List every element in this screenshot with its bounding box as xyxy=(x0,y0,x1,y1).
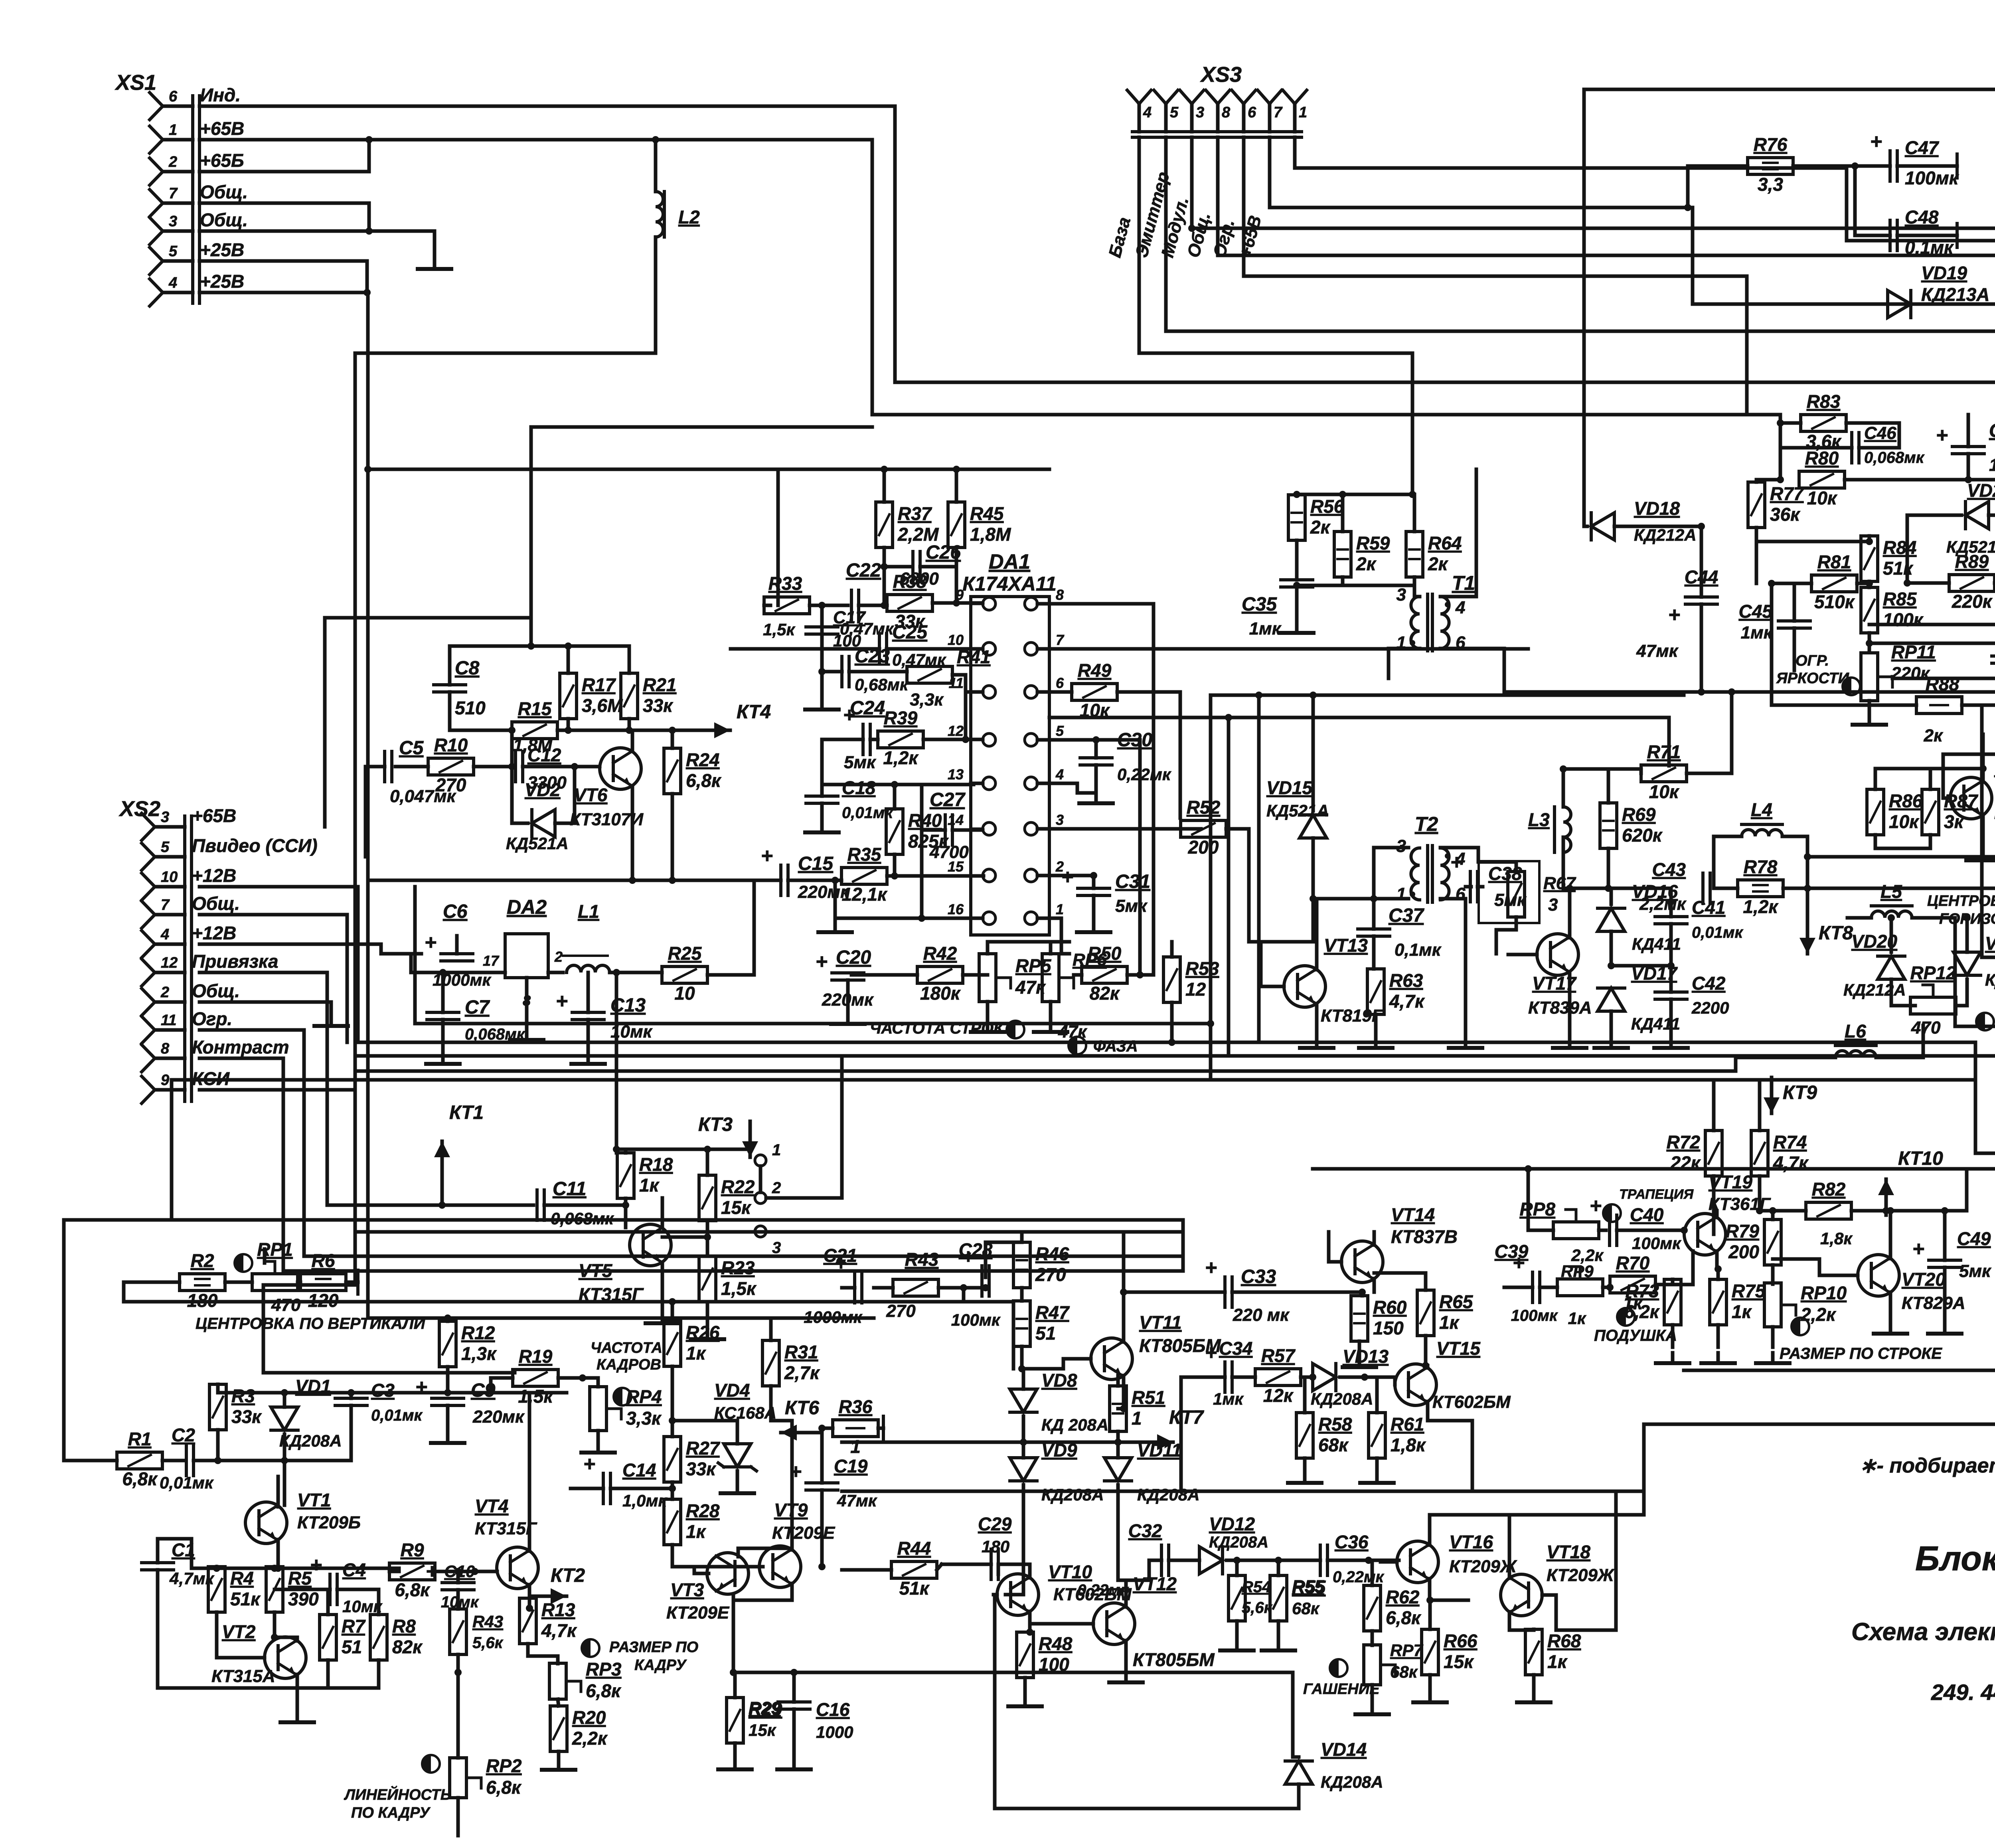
wire RP2 bottom xyxy=(456,1798,460,1836)
svg-text:ЦЕНТРОВКА ПО ВЕРТИКАЛИ: ЦЕНТРОВКА ПО ВЕРТИКАЛИ xyxy=(196,1315,426,1332)
transistor VT18 xyxy=(1501,1542,1590,1616)
label линейность по кадру xyxy=(344,1785,451,1821)
junction xyxy=(818,668,826,675)
capacitor C35 xyxy=(1281,580,1313,587)
diode VD11 xyxy=(1104,1440,1182,1481)
svg-text:ЦЕНТРОВКА ПО: ЦЕНТРОВКА ПО xyxy=(1927,893,1995,909)
svg-text:0,22мк: 0,22мк xyxy=(1333,1568,1384,1586)
connector XS1 pin 3 Общ. xyxy=(150,210,248,245)
wire left riser xyxy=(170,1080,174,1220)
svg-text:2к: 2к xyxy=(1924,726,1944,745)
wire Iстр12 row xyxy=(1807,887,1995,890)
wire R57 to VD13 xyxy=(1301,1376,1313,1379)
resistor R24 xyxy=(664,748,722,794)
junction xyxy=(1728,688,1735,696)
wire R1 to C2 xyxy=(162,1459,184,1463)
svg-text:14: 14 xyxy=(948,812,964,828)
label VD12 type xyxy=(1209,1534,1268,1551)
svg-text:C32: C32 xyxy=(1128,1520,1162,1541)
wire R75 bottom xyxy=(1716,1325,1720,1347)
svg-text:1к: 1к xyxy=(639,1175,660,1196)
svg-text:Общ.: Общ. xyxy=(192,893,240,914)
wire C39 to RP9 xyxy=(1540,1286,1557,1289)
wire KT13 riser xyxy=(1974,1042,1977,1153)
wire left bus riser xyxy=(356,887,360,1042)
capacitor C37 xyxy=(1358,929,1390,936)
svg-text:R53: R53 xyxy=(1185,958,1219,979)
svg-text:R20: R20 xyxy=(572,1707,606,1728)
wire VT4 emitter xyxy=(528,1585,531,1608)
wire C41 bottom xyxy=(1669,924,1673,966)
svg-text:15к: 15к xyxy=(1444,1651,1474,1672)
svg-text:6,8к: 6,8к xyxy=(586,1680,622,1701)
svg-text:100мк: 100мк xyxy=(1632,1234,1681,1253)
wire R33 left stub xyxy=(764,604,770,607)
ground R29 xyxy=(718,1759,752,1769)
svg-text:390: 390 xyxy=(288,1589,319,1609)
wire R2-RP1 xyxy=(225,1281,252,1284)
wire R67 bottom to VT17 base xyxy=(1496,917,1516,954)
wire C17 node to C22 xyxy=(822,604,848,607)
capacitor C38 xyxy=(1451,851,1477,902)
svg-text:1: 1 xyxy=(772,1141,781,1159)
wire VD15 bottom xyxy=(1313,838,1345,899)
wire VT11 emitter xyxy=(1122,1376,1126,1409)
junction xyxy=(1941,1207,1948,1214)
wire R54 bottom xyxy=(1235,1621,1239,1640)
connector XS2 label xyxy=(119,797,160,821)
label C1 xyxy=(169,1540,214,1588)
svg-text:R9: R9 xyxy=(401,1540,424,1560)
label C38 xyxy=(1488,863,1527,910)
junction xyxy=(1715,1265,1722,1273)
label RP8 xyxy=(1520,1199,1604,1265)
label C32 xyxy=(1077,1520,1162,1599)
wire C23 to R41 xyxy=(849,670,907,674)
svg-text:+: + xyxy=(426,1560,438,1583)
wire C2 to node xyxy=(194,1459,351,1463)
wire R46-R47 xyxy=(1020,1288,1024,1301)
wire long rail y4191 xyxy=(733,1671,1293,1674)
label C10 xyxy=(441,1562,479,1611)
label R82 value xyxy=(1820,1229,1853,1248)
svg-text:5: 5 xyxy=(161,839,170,856)
wire VT16 emitter xyxy=(1430,1579,1468,1600)
svg-text:XS3: XS3 xyxy=(1200,63,1242,87)
wire riser xyxy=(1179,1442,1183,1491)
junction xyxy=(439,1202,446,1209)
wire C39 left xyxy=(1504,1286,1533,1289)
svg-text:R40: R40 xyxy=(908,810,942,831)
svg-text:12: 12 xyxy=(1185,979,1206,1000)
svg-text:51: 51 xyxy=(342,1637,362,1657)
svg-text:VD12: VD12 xyxy=(1209,1514,1255,1534)
svg-text:1: 1 xyxy=(1132,1408,1142,1429)
svg-text:R33: R33 xyxy=(768,573,802,594)
svg-text:1: 1 xyxy=(1299,104,1307,121)
resistor R25 xyxy=(662,943,707,1004)
potentiometer RP6 xyxy=(1042,954,1074,1002)
wire R71 right xyxy=(1687,692,1732,773)
wire Защита8 riser xyxy=(1980,705,1984,957)
svg-text:R43: R43 xyxy=(472,1612,503,1631)
capacitor C19 xyxy=(790,1460,838,1490)
transistor VT15 xyxy=(1395,1338,1481,1405)
svg-text:3: 3 xyxy=(1396,836,1406,856)
connector XS2 pin 4 +12В xyxy=(142,923,236,958)
junction xyxy=(1777,419,1784,427)
ground DA2 xyxy=(510,1030,543,1040)
wire to C6 xyxy=(381,952,421,956)
wire pin1 xyxy=(1037,918,1069,954)
wire R35 to pin15 drawn earlier segment xyxy=(887,874,983,878)
label C45 xyxy=(1739,601,1774,642)
resistor R67 xyxy=(1508,872,1525,917)
resistor R89 xyxy=(1949,551,1995,612)
wire bus C2 to XS6-6 xyxy=(842,995,1995,1056)
ground near XS1 xyxy=(433,257,437,261)
wire to T2 node xyxy=(1345,897,1374,901)
junction xyxy=(527,642,535,650)
wire VT13 collector xyxy=(1315,899,1319,970)
resistor R74 xyxy=(1751,1131,1809,1176)
svg-text:КД208А: КД208А xyxy=(1209,1534,1268,1551)
ground VD4 xyxy=(721,1483,754,1493)
wire Iстр7 row xyxy=(1955,918,1995,1026)
svg-text:C23: C23 xyxy=(855,646,890,667)
label VT12 type xyxy=(1133,1649,1215,1670)
capacitor C49 xyxy=(1913,1237,1961,1267)
ground C9 xyxy=(431,1433,464,1443)
wire C12 to VT6 base xyxy=(523,765,600,769)
wire duplicate xyxy=(820,605,824,656)
potentiometer RP2 xyxy=(450,1755,522,1798)
wire R76 left xyxy=(1688,164,1748,168)
svg-text:VT14: VT14 xyxy=(1391,1204,1435,1225)
resistor R9 xyxy=(389,1540,435,1600)
wire T2 pin3 feed xyxy=(1374,848,1408,899)
svg-text:+: + xyxy=(310,1554,322,1577)
wire VT9 emitter xyxy=(733,1583,792,1600)
wire C3 top xyxy=(350,1393,353,1398)
svg-text:КД521А: КД521А xyxy=(1266,801,1329,820)
wire XS1 pin7 xyxy=(199,203,369,231)
capacitor C45 xyxy=(1778,621,1810,628)
wire bus C1 xyxy=(358,1054,842,1058)
svg-text:R73: R73 xyxy=(1626,1281,1659,1301)
wire RP9 to R70 xyxy=(1603,1286,1610,1289)
wire R43 bottom xyxy=(456,1654,460,1672)
svg-text:РАЗМЕР ПО: РАЗМЕР ПО xyxy=(609,1639,698,1656)
wire to VD2 xyxy=(512,767,528,823)
junction xyxy=(1092,736,1100,743)
svg-text:VT16: VT16 xyxy=(1449,1532,1493,1552)
label C7 xyxy=(465,997,525,1043)
junction xyxy=(444,1314,451,1322)
adjust mark RP4 xyxy=(614,1388,631,1405)
resistor R66 xyxy=(1422,1629,1477,1675)
wire R84-R85 node xyxy=(1868,581,1871,587)
wire XS2 Общ7 xyxy=(199,915,347,1042)
svg-text:1мк: 1мк xyxy=(1741,623,1774,642)
wire C16 bottom xyxy=(792,1709,796,1759)
svg-text:6: 6 xyxy=(169,88,178,105)
wire RP3-R20 xyxy=(558,1699,559,1706)
svg-text:0,68мк: 0,68мк xyxy=(855,675,909,694)
capacitor C51 xyxy=(1992,656,1995,663)
wire R40 top xyxy=(893,785,897,809)
svg-text:VD18: VD18 xyxy=(1634,498,1680,519)
wire +25В down left side xyxy=(199,293,368,1318)
resistor R13 xyxy=(519,1598,577,1644)
wire T2 pin1 feed xyxy=(1374,897,1408,901)
terminal R36 xyxy=(882,1416,885,1440)
junction xyxy=(508,727,516,734)
resistor R4 xyxy=(208,1567,261,1612)
svg-text:51к: 51к xyxy=(230,1589,261,1609)
svg-text:5мк: 5мк xyxy=(1959,1261,1992,1281)
svg-text:R69: R69 xyxy=(1622,804,1656,825)
junction xyxy=(1560,765,1567,773)
svg-text:1к: 1к xyxy=(686,1343,707,1364)
wire R12 top xyxy=(446,1318,450,1321)
wire VD21 right xyxy=(1989,515,1995,583)
svg-text:5: 5 xyxy=(1056,723,1064,739)
junction xyxy=(891,781,898,788)
capacitor C7 xyxy=(427,1012,459,1020)
wire XS2 Привязка xyxy=(199,972,327,1205)
svg-text:9: 9 xyxy=(161,1072,169,1089)
junction xyxy=(953,599,960,607)
wire XS2 pin4 +12В xyxy=(199,944,381,954)
ground XS1 common xyxy=(418,259,451,269)
wire C18 bottom xyxy=(820,803,824,822)
svg-text:КД212А: КД212А xyxy=(1634,526,1697,544)
junction xyxy=(444,1389,451,1396)
test point КТ8 xyxy=(1799,918,1853,954)
connector XS1 pin 6 Инд. xyxy=(150,85,241,120)
svg-text:C29: C29 xyxy=(978,1514,1012,1534)
wire R56 bottom xyxy=(1295,540,1299,580)
svg-text:1: 1 xyxy=(169,122,177,138)
svg-text:C8: C8 xyxy=(455,658,480,679)
capacitor C29 xyxy=(991,1549,998,1579)
ground RP10 xyxy=(1756,1353,1790,1363)
svg-text:5,6к: 5,6к xyxy=(472,1634,504,1652)
label VT20 xyxy=(1902,1269,1965,1313)
resistor R78 xyxy=(1738,856,1783,917)
test point КТ2 xyxy=(531,1565,585,1604)
label VD17 type xyxy=(1631,1014,1680,1033)
label C37 xyxy=(1389,905,1442,960)
svg-text:Огр.: Огр. xyxy=(192,1008,232,1029)
wire VT3 base xyxy=(694,1567,709,1573)
svg-text:VT20: VT20 xyxy=(1902,1269,1946,1290)
potentiometer RP8 xyxy=(1553,1210,1599,1239)
wire R66 bottom xyxy=(1428,1675,1432,1692)
wire R53 top xyxy=(1170,942,1174,957)
wire VT12 collector xyxy=(1118,1580,1126,1607)
label RP1 value xyxy=(271,1295,301,1315)
resistor R28 xyxy=(664,1499,720,1545)
wire net +65В xyxy=(199,140,1780,415)
ground VD17 xyxy=(1594,1038,1628,1048)
wire C49 top xyxy=(1943,1211,1947,1260)
wire R10 to C12 xyxy=(474,765,512,769)
wire VT10 collector xyxy=(998,1564,1030,1578)
IC DA2 body xyxy=(483,934,563,1009)
wire collector xyxy=(277,1476,280,1507)
svg-text:R70: R70 xyxy=(1616,1253,1650,1273)
svg-text:C5: C5 xyxy=(399,737,424,759)
resistor R44 xyxy=(891,1538,937,1599)
wire C37 top xyxy=(1372,899,1376,929)
svg-text:5: 5 xyxy=(1170,104,1179,121)
IC DA1 pin 15 xyxy=(948,858,996,882)
ground RP11 xyxy=(1853,714,1886,725)
svg-text:+: + xyxy=(1936,424,1948,447)
svg-text:RP12: RP12 xyxy=(1910,963,1956,983)
svg-text:C2: C2 xyxy=(172,1425,195,1445)
wire C32 to VD12 xyxy=(1169,1559,1199,1562)
wire R40 bottom xyxy=(893,854,897,876)
wire R51 to VT11 xyxy=(1116,1376,1120,1386)
wire R76 feed xyxy=(1686,166,1690,208)
wire C9 bottom xyxy=(446,1405,450,1433)
resistor R41 xyxy=(907,666,952,683)
wire VT3 emitter tie xyxy=(738,1548,792,1557)
svg-text:0,22мк: 0,22мк xyxy=(1077,1581,1129,1599)
svg-text:VD4: VD4 xyxy=(714,1380,750,1401)
transformer T2 xyxy=(1396,813,1466,904)
wire to VT11 base xyxy=(1022,1359,1063,1369)
svg-text:VD11: VD11 xyxy=(1137,1440,1182,1461)
junction xyxy=(1293,582,1300,589)
svg-text:270: 270 xyxy=(1035,1264,1066,1285)
wire VT1 emitter row xyxy=(192,1567,399,1570)
svg-text:C43: C43 xyxy=(1652,859,1686,880)
wire left edge riser xyxy=(62,1220,66,1461)
wire C47 right xyxy=(1897,164,1957,168)
junction xyxy=(1851,162,1859,170)
wire C4-R8 xyxy=(351,1588,379,1591)
svg-text:C22: C22 xyxy=(846,560,881,581)
svg-text:3,3к: 3,3к xyxy=(910,690,944,710)
svg-text:82к: 82к xyxy=(1090,983,1120,1004)
capacitor C11 xyxy=(537,1190,544,1220)
junction xyxy=(1804,853,1811,860)
label VT21 type xyxy=(1994,802,1995,823)
resistor R49 xyxy=(1072,660,1117,721)
label R29 xyxy=(749,1698,781,1739)
wire VD22 top xyxy=(1965,918,1969,952)
svg-text:RP3: RP3 xyxy=(586,1659,622,1680)
wire into C38 xyxy=(1466,885,1471,889)
wire bus D xyxy=(358,1069,1736,1073)
svg-text:VD15: VD15 xyxy=(1266,777,1313,798)
wire R51 bottom xyxy=(1116,1431,1120,1442)
wire R55 top xyxy=(1277,1560,1280,1575)
wire C13 top xyxy=(587,972,590,1012)
resistor R70 xyxy=(1610,1253,1655,1313)
wire R88 right xyxy=(1962,704,1995,707)
svg-text:11: 11 xyxy=(161,1012,176,1029)
svg-text:R37: R37 xyxy=(898,503,932,524)
resistor R21 xyxy=(621,673,676,719)
svg-text:RP8: RP8 xyxy=(1520,1199,1556,1219)
resistor R86 xyxy=(1867,789,1923,835)
svg-text:270: 270 xyxy=(435,775,466,795)
svg-text:C50: C50 xyxy=(1989,420,1995,441)
svg-text:10: 10 xyxy=(161,869,178,885)
test point КТ10 xyxy=(1878,1148,1943,1215)
label VD22 type xyxy=(1985,970,1995,989)
connector XS1 pin 5 +25В xyxy=(150,239,244,275)
junction xyxy=(1963,914,1971,921)
wire C31 bottom xyxy=(1092,895,1096,922)
svg-text:3: 3 xyxy=(1396,585,1406,605)
junction xyxy=(818,1425,826,1432)
wire C42 top xyxy=(1669,969,1673,992)
svg-text:+: + xyxy=(1205,1341,1217,1364)
svg-text:КД212А: КД212А xyxy=(1985,970,1995,989)
wire VT2 base xyxy=(217,1656,265,1660)
wire bundle L3 xyxy=(304,1255,1183,1258)
wire +65B upper branch xyxy=(531,425,872,429)
svg-text:C20: C20 xyxy=(836,947,871,968)
inductor L4 xyxy=(1742,799,1782,836)
svg-text:3,3к: 3,3к xyxy=(626,1408,662,1429)
label C34 xyxy=(1213,1338,1252,1408)
svg-text:200: 200 xyxy=(1188,837,1219,858)
wire T1 pin4 up xyxy=(1440,527,1476,597)
diode VD14 xyxy=(1285,1739,1367,1784)
junction xyxy=(881,602,888,609)
resistor R15 xyxy=(512,698,557,739)
wire L6 right xyxy=(1876,1026,1923,1057)
resistor R12 xyxy=(439,1321,497,1367)
switch contact 1 xyxy=(755,1141,781,1166)
svg-text:100мк: 100мк xyxy=(951,1310,1001,1329)
svg-text:8: 8 xyxy=(161,1040,170,1057)
resistor R71 xyxy=(1641,741,1687,802)
wire switch arm xyxy=(759,1166,762,1192)
svg-text:КТ837В: КТ837В xyxy=(1391,1226,1458,1247)
ground R55 xyxy=(1262,1640,1295,1650)
label C31 xyxy=(1115,871,1150,916)
resistor R62 xyxy=(1364,1585,1422,1631)
wire R52 right xyxy=(1226,829,1249,942)
wire VT6 emitter down xyxy=(631,786,634,880)
wire C14 left xyxy=(571,1487,603,1490)
svg-text:VT4: VT4 xyxy=(475,1496,508,1516)
ground R75 xyxy=(1701,1353,1735,1363)
wire XS3 Общ xyxy=(1218,137,1995,368)
svg-text:R26: R26 xyxy=(686,1322,720,1343)
wire C14 right xyxy=(610,1487,672,1490)
resistor R82 xyxy=(1806,1179,1851,1219)
resistor R56 xyxy=(1288,495,1344,540)
junction xyxy=(454,1568,462,1575)
wire R84 stub xyxy=(1868,536,1871,542)
wire into C34 xyxy=(1181,1376,1225,1379)
switch contact 3 xyxy=(755,1226,781,1257)
ground VT21 xyxy=(1966,850,1995,860)
wire pin8 right and down xyxy=(1037,604,1154,975)
connector XS2 pin 9 КСИ xyxy=(142,1068,230,1103)
wire to C48 xyxy=(1855,166,1890,235)
title Блок разверток xyxy=(1915,1540,1995,1578)
